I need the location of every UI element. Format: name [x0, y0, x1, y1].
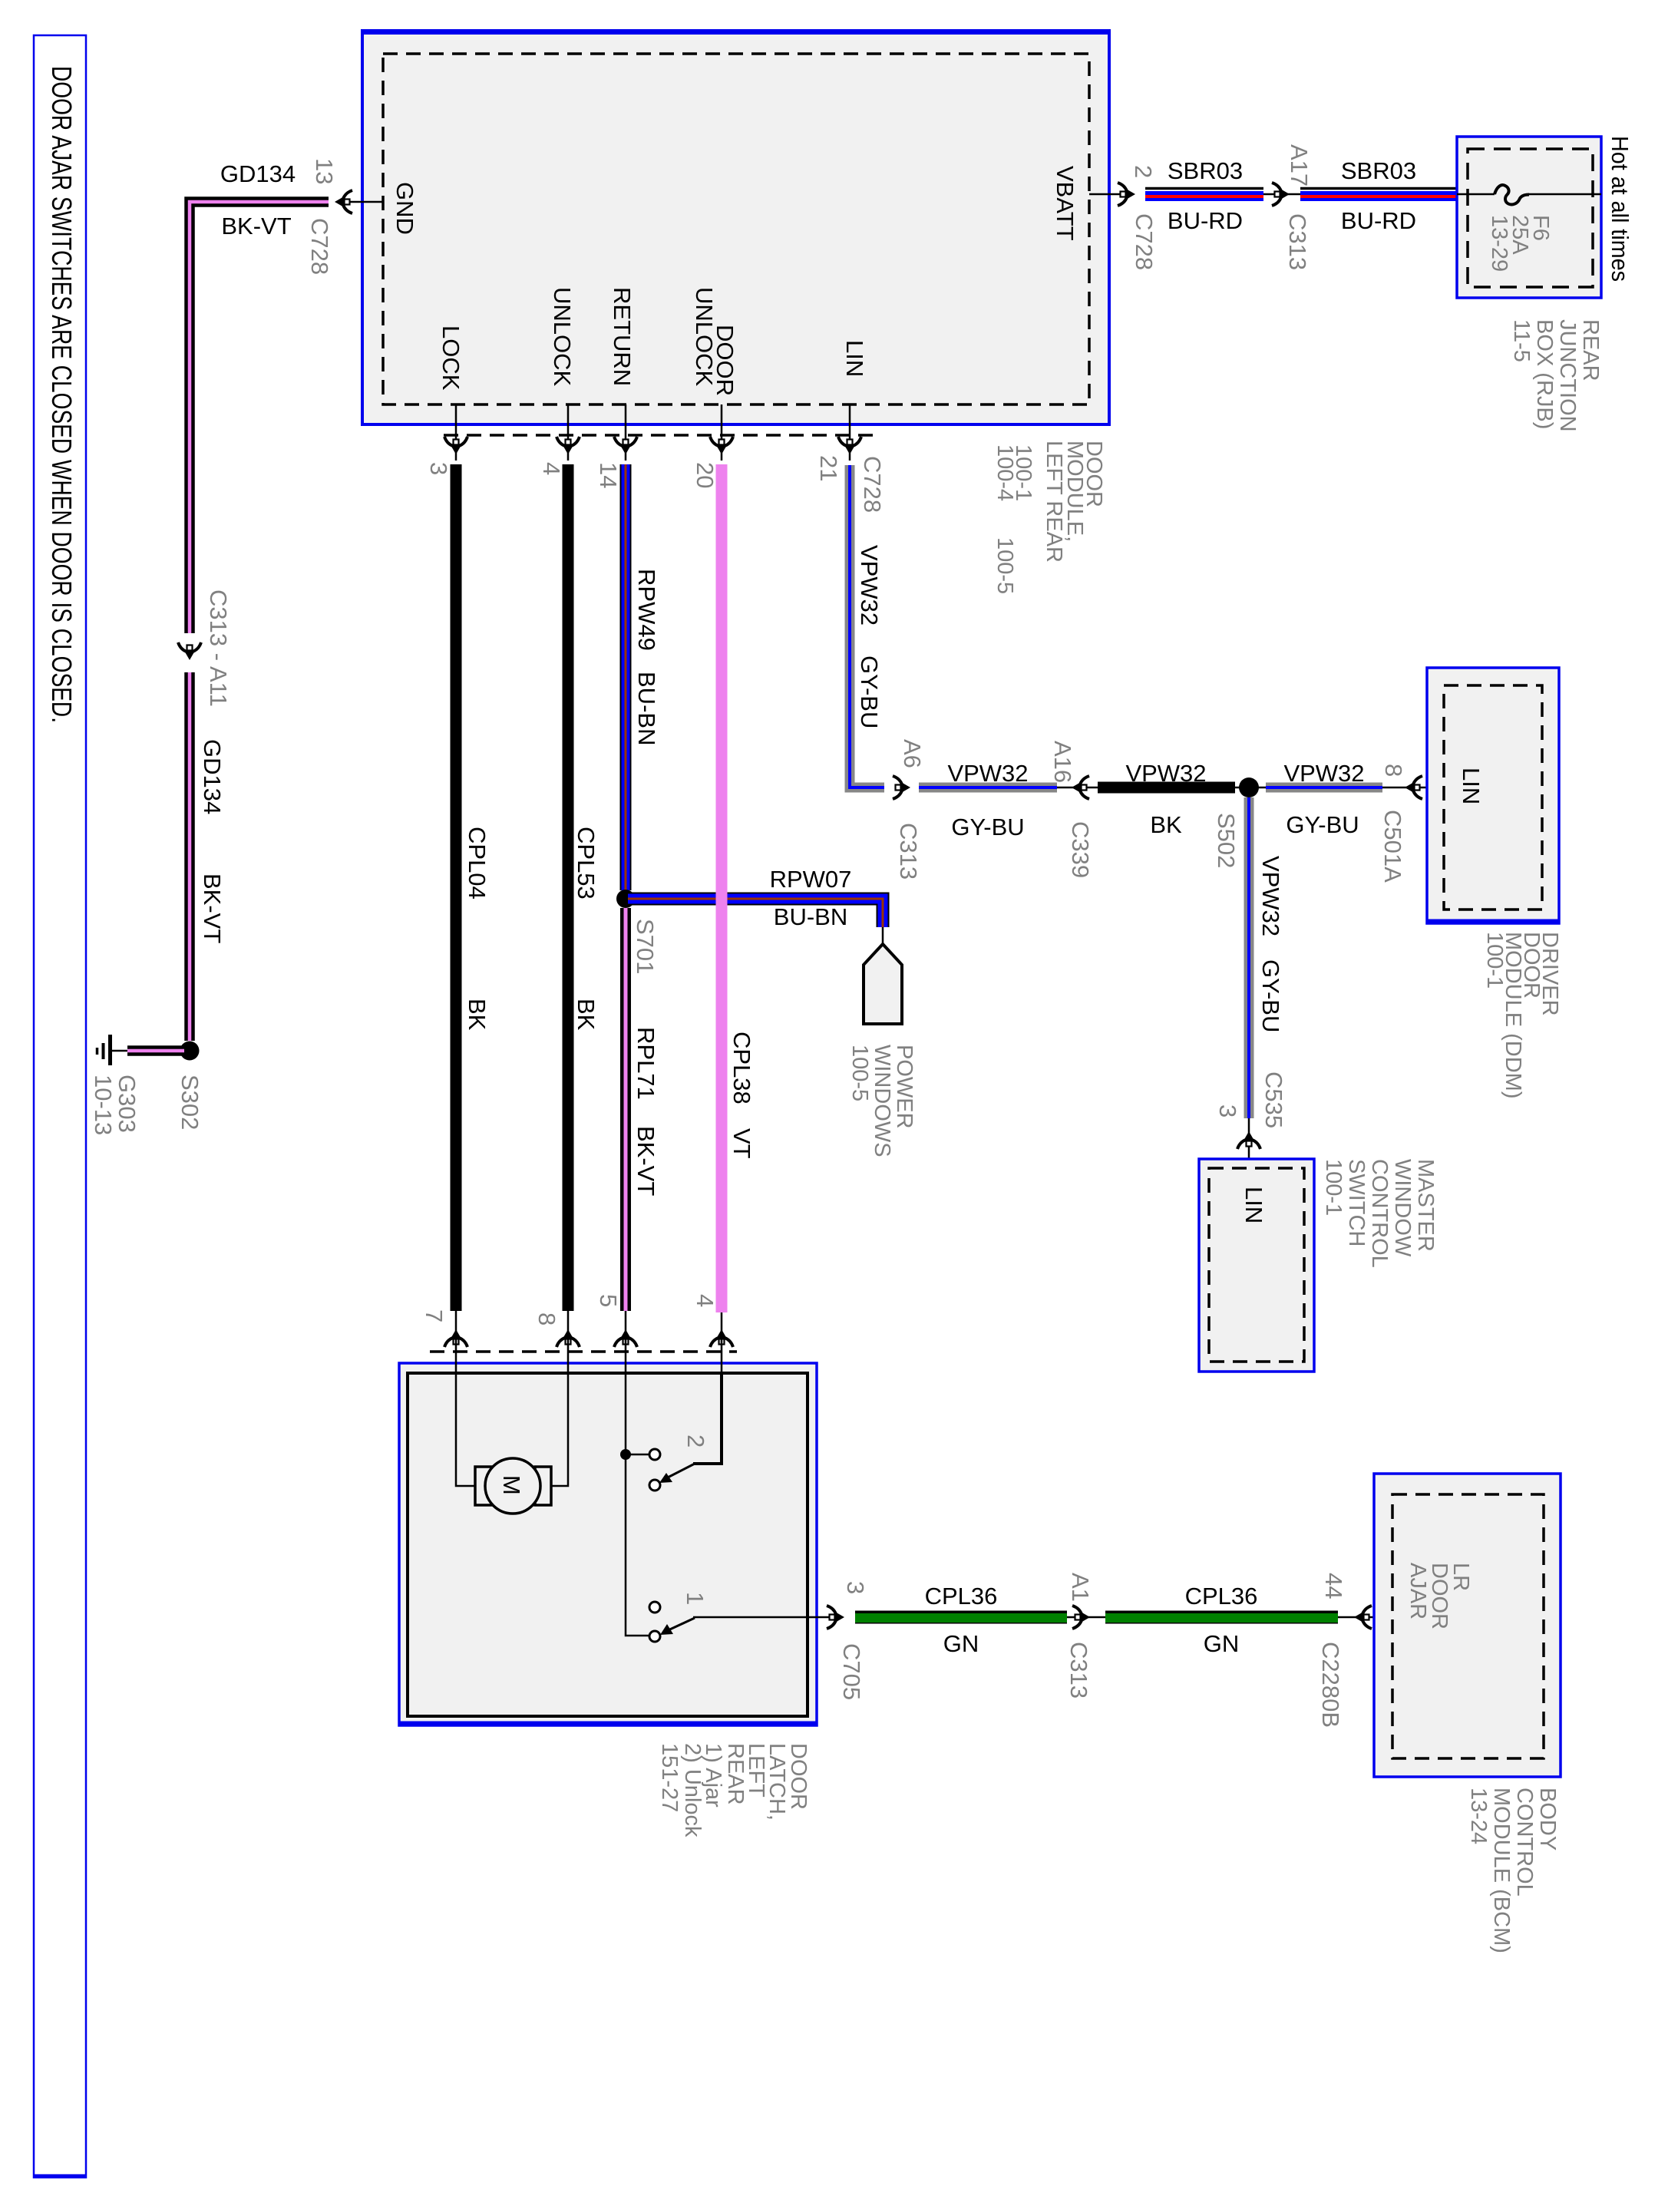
label switch 2	[682, 1434, 709, 1448]
svg-text:21: 21	[815, 455, 842, 481]
label VT	[728, 1128, 755, 1159]
connector C728 dashed line	[444, 434, 879, 437]
connector C2280B label	[1317, 1642, 1344, 1728]
connector C728 label (pin21)	[859, 456, 886, 513]
connector arrow pin21	[838, 437, 861, 454]
svg-text:BU-RD: BU-RD	[1341, 207, 1416, 234]
label F6 25A 13-29	[1487, 215, 1553, 272]
svg-text:CPL38: CPL38	[728, 1032, 755, 1104]
svg-text:A17: A17	[1286, 144, 1313, 187]
svg-text:BK: BK	[1150, 811, 1182, 838]
wire link C535	[1248, 1118, 1250, 1169]
svg-text:C728: C728	[306, 218, 333, 275]
wire SBR03 BU-RD segment 1	[1145, 189, 1263, 197]
svg-text:GY-BU: GY-BU	[1286, 811, 1359, 838]
pin LOCK label	[438, 325, 464, 391]
svg-text:VPW32: VPW32	[947, 760, 1028, 787]
label SBR03 (2)	[1341, 157, 1416, 184]
label SBR03 (1)	[1168, 157, 1243, 184]
svg-text:LEFT REAR: LEFT REAR	[1042, 441, 1066, 563]
svg-text:VPW32: VPW32	[1283, 760, 1364, 787]
latch connector dashed line	[430, 1350, 737, 1353]
label BU-BN (RPW07)	[774, 903, 847, 930]
switch 2 contact b	[649, 1480, 660, 1491]
RJB name block	[1509, 319, 1603, 432]
svg-text:MASTER: MASTER	[1413, 1159, 1438, 1252]
label BK-VT (vertical)	[199, 873, 226, 943]
svg-text:4: 4	[538, 462, 565, 475]
pin 4 stub	[567, 404, 570, 461]
wire link C2280B	[1338, 1616, 1392, 1619]
svg-text:RPW07: RPW07	[770, 866, 852, 893]
wire CPL38 VT (door unlock)	[716, 464, 728, 1312]
DDM LIN pin label	[1458, 768, 1485, 804]
pin 20 label	[692, 462, 718, 488]
connector C313 A1 arrow	[1072, 1606, 1090, 1629]
svg-text:8: 8	[533, 1312, 560, 1326]
label S302	[177, 1075, 203, 1130]
label BK-VT (top)	[221, 213, 291, 239]
svg-text:C313 - A11: C313 - A11	[205, 589, 232, 707]
note box border	[34, 35, 86, 2177]
wire CPL36 GN segment 2	[1105, 1617, 1338, 1618]
svg-text:13-24: 13-24	[1466, 1788, 1491, 1844]
wire node to switch1	[626, 1454, 649, 1636]
wire VPW32 GY-BU segment C	[1266, 783, 1382, 793]
connector C501A arrow	[1405, 776, 1422, 799]
BCM inner dashed	[1392, 1494, 1544, 1758]
svg-text:UNLOCK: UNLOCK	[549, 287, 576, 387]
connector C313 label (A6)	[895, 823, 922, 880]
svg-text:G303: G303	[114, 1075, 140, 1133]
svg-text:M: M	[498, 1475, 525, 1495]
motor M label	[498, 1475, 525, 1495]
RJB box	[1457, 137, 1601, 298]
svg-text:S302: S302	[177, 1075, 203, 1130]
connector C313 label (A17)	[1284, 213, 1311, 270]
svg-text:C705: C705	[838, 1643, 865, 1700]
MWCS inner dashed	[1209, 1168, 1304, 1362]
svg-text:C728: C728	[859, 456, 886, 513]
svg-text:S502: S502	[1213, 813, 1240, 868]
svg-text:11-5: 11-5	[1509, 319, 1534, 362]
svg-text:8: 8	[1380, 764, 1407, 777]
svg-text:JUNCTION: JUNCTION	[1555, 319, 1580, 432]
pin 8 label	[1380, 764, 1407, 777]
pin RETURN label	[609, 287, 636, 386]
pin UNLOCK label	[549, 287, 576, 387]
svg-text:DOOR AJAR SWITCHES ARE CLOSED: DOOR AJAR SWITCHES ARE CLOSED WHEN DOOR …	[46, 66, 78, 723]
label CPL36 (1)	[925, 1583, 998, 1609]
pin 13 label	[311, 158, 338, 184]
svg-text:1: 1	[682, 1592, 708, 1605]
svg-text:7: 7	[421, 1309, 448, 1322]
pin 7 label	[421, 1309, 448, 1322]
svg-text:VPW32: VPW32	[1125, 760, 1206, 787]
svg-text:RPW49: RPW49	[633, 569, 660, 651]
svg-text:2) Unlock: 2) Unlock	[680, 1743, 705, 1837]
pin A16 label	[1049, 741, 1076, 783]
connector C313-A11 arrow	[178, 642, 201, 660]
connector arrow pin14	[614, 437, 637, 454]
svg-text:C535: C535	[1260, 1071, 1287, 1128]
label CPL04	[464, 827, 490, 900]
svg-text:CPL04: CPL04	[464, 827, 490, 900]
svg-text:SBR03: SBR03	[1341, 157, 1416, 184]
wire GD134 BK-VT upper run	[190, 202, 329, 633]
label GD134 (top)	[220, 160, 296, 187]
svg-text:SWITCH: SWITCH	[1344, 1159, 1369, 1246]
label Hot at all times	[1607, 136, 1633, 282]
svg-text:GN: GN	[1204, 1630, 1240, 1657]
wire GD134 BK-VT lower run	[184, 672, 195, 1041]
pin A1 label	[1067, 1573, 1094, 1602]
svg-text:13-29: 13-29	[1487, 215, 1511, 272]
pin GND label	[391, 182, 418, 235]
BCM LR DOOR AJAR pin label	[1405, 1563, 1473, 1629]
svg-text:POWER: POWER	[892, 1045, 917, 1129]
connector C728 pin13 arrow	[335, 190, 352, 213]
svg-text:AJAR: AJAR	[1405, 1563, 1430, 1619]
off-page POWER WINDOWS connector	[864, 944, 902, 1024]
wire RPW07 BU-BN branch	[628, 899, 883, 927]
svg-text:CONTROL: CONTROL	[1367, 1159, 1392, 1268]
pin 3 label (latch)	[842, 1581, 869, 1594]
wire RPW49 BU-BN (return upper)	[620, 464, 632, 890]
wire pin5 into latch	[625, 1311, 627, 1454]
label CPL38	[728, 1032, 755, 1104]
pin 14 label	[595, 462, 622, 488]
latch arrow pin8	[557, 1329, 580, 1347]
svg-text:BK: BK	[573, 999, 599, 1031]
pin A17 label	[1286, 144, 1313, 187]
svg-text:3: 3	[842, 1581, 869, 1594]
switch 1 contact b	[649, 1631, 660, 1642]
svg-text:3: 3	[425, 462, 452, 475]
svg-text:BU-BN: BU-BN	[633, 672, 660, 745]
pin 8 label (latch)	[533, 1312, 560, 1326]
wire link A1	[1067, 1616, 1105, 1619]
wire SBR03 BU-RD segment 2	[1300, 189, 1457, 197]
pin 20 stub	[721, 404, 723, 461]
label VPW32 (LIN)	[856, 545, 883, 626]
svg-text:BK-VT: BK-VT	[199, 873, 226, 943]
label BK (lock)	[464, 999, 490, 1031]
splice S302	[180, 1042, 200, 1061]
switch junction node	[620, 1449, 631, 1460]
label VPW32 (B)	[1125, 760, 1206, 787]
connector C313 A6 arrow	[893, 776, 910, 799]
svg-text:100-1: 100-1	[1321, 1159, 1346, 1216]
svg-text:100-4: 100-4	[993, 444, 1017, 501]
latch pin3 arrow	[827, 1606, 844, 1629]
pin A6 label	[899, 739, 926, 768]
label VPW32 (C)	[1283, 760, 1364, 787]
connector arrow pin20	[710, 437, 733, 454]
svg-text:BK-VT: BK-VT	[633, 1126, 659, 1196]
svg-text:20: 20	[692, 462, 718, 488]
label GN (2)	[1204, 1630, 1240, 1657]
svg-text:RPL71: RPL71	[633, 1027, 659, 1100]
DDM inner dashed	[1444, 685, 1542, 910]
svg-text:A16: A16	[1049, 741, 1076, 783]
wire link S502	[1235, 787, 1266, 789]
fuse F6 25A	[1495, 185, 1529, 204]
svg-text:CPL36: CPL36	[1185, 1583, 1258, 1609]
wire pin8 to motor	[542, 1311, 568, 1486]
wire node to contact 2	[626, 1454, 649, 1456]
label GY-BU (A)	[951, 814, 1024, 840]
svg-text:GND: GND	[391, 182, 418, 235]
pin 14 stub	[625, 404, 627, 461]
pin DOOR UNLOCK label	[691, 287, 738, 396]
svg-text:S701: S701	[632, 919, 659, 974]
svg-text:C339: C339	[1067, 821, 1094, 878]
motor M1	[475, 1458, 551, 1514]
svg-text:UNLOCK: UNLOCK	[691, 287, 718, 387]
pin LIN label	[841, 340, 868, 377]
RJB inner dashed	[1468, 149, 1593, 287]
RJB feed line right	[1529, 193, 1601, 196]
RJB feed line left	[1457, 193, 1495, 196]
svg-text:2: 2	[682, 1434, 709, 1448]
label CPL53	[573, 827, 599, 900]
label BU-BN (return)	[633, 672, 660, 745]
label BU-RD (1)	[1168, 207, 1243, 234]
label CPL36 (2)	[1185, 1583, 1258, 1609]
wire S302 to ground	[112, 1045, 184, 1056]
svg-text:4: 4	[692, 1294, 718, 1307]
svg-text:BU-RD: BU-RD	[1168, 207, 1243, 234]
label RPW49	[633, 569, 660, 651]
connector C535 label	[1260, 1071, 1287, 1128]
svg-text:LOCK: LOCK	[438, 325, 464, 391]
connector C728 label (VBATT)	[1131, 213, 1158, 270]
connector C501A label	[1379, 810, 1406, 883]
svg-text:VT: VT	[728, 1128, 755, 1159]
svg-text:REAR: REAR	[1578, 319, 1603, 381]
svg-text:REAR: REAR	[723, 1743, 748, 1805]
connector C728 pin2 arrow	[1118, 183, 1135, 206]
label S502	[1213, 813, 1240, 868]
svg-text:GY-BU: GY-BU	[951, 814, 1024, 840]
connector C728 label (GND)	[306, 218, 333, 275]
connector C313 - A11 label	[205, 589, 232, 707]
label BK (unlock)	[573, 999, 599, 1031]
wire GND pin stub	[345, 201, 383, 203]
pin 3 stub	[455, 404, 457, 461]
svg-text:SBR03: SBR03	[1168, 157, 1243, 184]
label BK (B)	[1150, 811, 1182, 838]
svg-text:14: 14	[595, 462, 622, 488]
pin 5 label	[595, 1294, 622, 1307]
svg-text:GD134: GD134	[199, 739, 226, 814]
label POWER WINDOWS 100-5	[847, 1045, 917, 1157]
pin 3 label (C535)	[1214, 1104, 1241, 1118]
wire pin4 stub into latch	[721, 1312, 723, 1373]
wire VPW32 GY-BU (LIN down+right)	[850, 465, 884, 787]
pin 21 stub	[849, 404, 851, 461]
wire switch2 to pin4 (thick)	[693, 1373, 722, 1464]
connector C339 A16 arrow	[1072, 776, 1089, 799]
connector C705 label	[838, 1643, 865, 1700]
svg-text:RETURN: RETURN	[609, 287, 636, 386]
svg-text:LIN: LIN	[1458, 768, 1485, 804]
svg-text:C728: C728	[1131, 213, 1158, 270]
DDM box	[1427, 668, 1559, 923]
splice S701	[616, 890, 635, 908]
pin 4 label	[538, 462, 565, 475]
wire link C313 A17	[1263, 193, 1300, 196]
svg-text:151-27: 151-27	[657, 1743, 682, 1812]
BCM name block	[1466, 1788, 1560, 1953]
switch 2 blade	[659, 1464, 695, 1483]
switch 2 contact a	[649, 1449, 660, 1460]
wire CPL53 BK (unlock)	[563, 464, 574, 1311]
svg-text:2: 2	[1130, 165, 1157, 178]
svg-text:WINDOW: WINDOW	[1390, 1159, 1415, 1257]
module U1 DOOR MODULE LEFT REAR box	[361, 31, 1111, 424]
svg-text:GD134: GD134	[220, 160, 296, 187]
svg-text:VBATT: VBATT	[1052, 166, 1078, 241]
label GY-BU (C)	[1286, 811, 1359, 838]
module U1 name block	[993, 441, 1106, 594]
wire switch1 to pin3	[693, 1616, 838, 1619]
MWCS LIN pin label	[1240, 1187, 1267, 1223]
svg-text:BOX (RJB): BOX (RJB)	[1532, 319, 1557, 429]
label RPW07	[770, 866, 852, 893]
latch arrow pin4	[710, 1329, 733, 1347]
label BU-RD (2)	[1341, 207, 1416, 234]
svg-text:GY-BU: GY-BU	[1257, 959, 1284, 1032]
connector C313 label (A1)	[1065, 1642, 1092, 1699]
svg-text:VPW32: VPW32	[1257, 856, 1284, 936]
wire to power windows	[882, 927, 884, 945]
pin VBATT label	[1052, 166, 1078, 241]
label BK-VT (RPL71)	[633, 1126, 659, 1196]
svg-text:CPL36: CPL36	[925, 1583, 998, 1609]
MWCS name block	[1321, 1159, 1438, 1268]
wire VPW32 BK segment B	[1098, 782, 1235, 794]
DDM name block	[1482, 932, 1562, 1099]
svg-text:C313: C313	[1284, 213, 1311, 270]
svg-text:A6: A6	[899, 739, 926, 768]
svg-text:BK-VT: BK-VT	[221, 213, 291, 239]
label switch 1	[682, 1592, 708, 1605]
pin 2 label	[1130, 165, 1157, 178]
label GD134 (vertical)	[199, 739, 226, 814]
wire pin7 to motor	[456, 1311, 485, 1486]
svg-text:GN: GN	[943, 1630, 979, 1657]
pin 44 label	[1320, 1573, 1347, 1599]
connector C2280B arrow	[1354, 1606, 1372, 1629]
connector arrow pin3	[444, 437, 467, 454]
wire RPL71 BK-VT (return lower)	[620, 908, 631, 1311]
label GY-BU (down)	[1257, 959, 1284, 1032]
wire link C501A	[1382, 787, 1444, 789]
pin 3 label	[425, 462, 452, 475]
label G303 10-13	[90, 1075, 140, 1135]
svg-text:C313: C313	[1065, 1642, 1092, 1699]
splice S502	[1239, 778, 1259, 797]
svg-text:C313: C313	[895, 823, 922, 880]
latch name block	[657, 1743, 811, 1837]
svg-text:BK: BK	[464, 999, 490, 1031]
pin 4 label (latch)	[692, 1294, 718, 1307]
switch 1 contact open	[649, 1602, 660, 1613]
svg-text:LIN: LIN	[841, 340, 868, 377]
label VPW32 (A)	[947, 760, 1028, 787]
pin 21 label	[815, 455, 842, 481]
svg-text:10-13: 10-13	[90, 1075, 117, 1135]
svg-text:WINDOWS: WINDOWS	[870, 1045, 894, 1157]
switch 1 blade	[660, 1618, 695, 1635]
svg-text:Hot at all times: Hot at all times	[1607, 136, 1633, 282]
BCM box	[1374, 1474, 1561, 1777]
label RPL71	[633, 1027, 659, 1100]
svg-text:LIN: LIN	[1240, 1187, 1267, 1223]
svg-text:C501A: C501A	[1379, 810, 1406, 883]
svg-text:13: 13	[311, 158, 338, 184]
connector C313 A17 arrow	[1272, 183, 1290, 206]
wire CPL04 BK (lock)	[451, 464, 462, 1311]
latch arrow pin7	[444, 1329, 467, 1347]
svg-text:44: 44	[1320, 1573, 1347, 1599]
svg-text:BODY: BODY	[1535, 1788, 1560, 1850]
latch inner box	[408, 1373, 808, 1716]
wire VPW32 GY-BU (S502 down)	[1244, 797, 1254, 1118]
label GY-BU (LIN)	[856, 655, 883, 728]
latch arrow pin5	[614, 1329, 637, 1347]
svg-text:100-5: 100-5	[847, 1045, 872, 1101]
svg-text:C2280B: C2280B	[1317, 1642, 1344, 1728]
module U1 inner dashed boundary	[383, 54, 1089, 404]
wire VPW32 GY-BU segment A	[919, 783, 1057, 793]
note text	[46, 66, 78, 723]
svg-text:CONTROL: CONTROL	[1512, 1788, 1537, 1897]
label VPW32 (down)	[1257, 856, 1284, 936]
svg-text:GY-BU: GY-BU	[856, 655, 883, 728]
svg-text:CPL53: CPL53	[573, 827, 599, 900]
MWCS box	[1199, 1159, 1314, 1372]
connector C339 label	[1067, 821, 1094, 878]
connector arrow pin4	[557, 437, 580, 454]
svg-text:A1: A1	[1067, 1573, 1094, 1602]
connector C535 arrow	[1237, 1131, 1260, 1149]
svg-text:3: 3	[1214, 1104, 1241, 1118]
svg-text:5: 5	[595, 1294, 622, 1307]
wire link A16	[1057, 787, 1098, 789]
wire CPL36 GN segment 1	[855, 1617, 1067, 1618]
svg-text:VPW32: VPW32	[856, 545, 883, 626]
label S701	[632, 919, 659, 974]
svg-text:100-5: 100-5	[993, 537, 1017, 594]
ground G303 symbol	[97, 1035, 111, 1065]
latch box	[399, 1363, 817, 1725]
svg-text:100-1: 100-1	[1482, 932, 1507, 989]
svg-text:MODULE (BCM): MODULE (BCM)	[1489, 1788, 1514, 1953]
svg-text:BU-BN: BU-BN	[774, 903, 847, 930]
label GN (1)	[943, 1630, 979, 1657]
wire VBATT pin stub	[1089, 193, 1120, 196]
